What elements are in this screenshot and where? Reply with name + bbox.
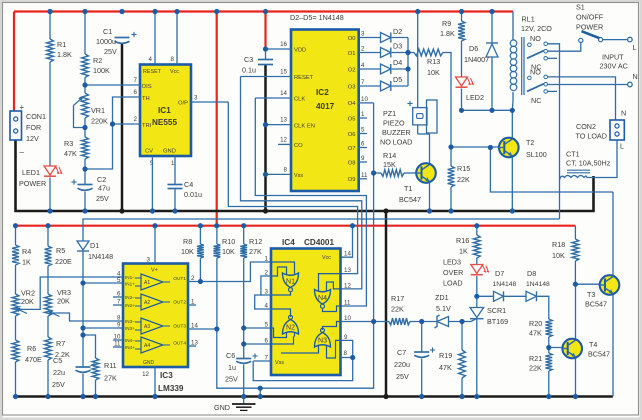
svg-text:R20: R20 [529, 319, 542, 328]
svg-text:OVER: OVER [443, 268, 463, 277]
svg-text:D3: D3 [393, 42, 402, 51]
resistor R3 47K [84, 118, 86, 137]
svg-text:BC547: BC547 [399, 195, 421, 204]
svg-text:LED2: LED2 [466, 93, 484, 102]
svg-text:GND: GND [214, 403, 230, 412]
wire +12V left riser from CON1 [13, 12, 15, 112]
junction [510, 108, 515, 113]
svg-text:LED1: LED1 [22, 168, 40, 177]
wire relay pole1 to switch S1 [548, 42, 581, 51]
svg-text:10: 10 [361, 96, 368, 103]
svg-text:OUT1: OUT1 [173, 276, 186, 282]
junction on +12V bottom rail [152, 223, 157, 228]
junction on upper ground bus [448, 208, 453, 213]
svg-text:14: 14 [344, 251, 351, 258]
connector CON1 FOR 12V [10, 111, 22, 140]
junction [371, 319, 376, 324]
wire relay pole2 to input N terminal [548, 84, 628, 86]
junction on +12V bottom rail [13, 223, 18, 228]
junction [110, 121, 115, 126]
svg-text:5: 5 [117, 277, 121, 284]
svg-text:VR1: VR1 [91, 106, 105, 115]
resistor R4 1K [15, 226, 17, 245]
svg-text:N1: N1 [286, 278, 295, 285]
wire IC1 DIS pin 7 row [85, 84, 140, 86]
junction [488, 145, 493, 150]
svg-text:OUT3: OUT3 [173, 324, 186, 330]
svg-text:NO: NO [530, 34, 541, 43]
svg-text:T1: T1 [404, 184, 412, 193]
svg-text:25V: 25V [104, 47, 117, 56]
diode D7 1N4148 [477, 295, 494, 297]
capacitor C5 22u 25V [82, 335, 84, 367]
IC U3 IC3 LM339 quad comparator [123, 264, 188, 368]
svg-text:4: 4 [361, 62, 365, 69]
svg-text:Vcc: Vcc [170, 69, 179, 75]
svg-text:R10: R10 [222, 237, 235, 246]
svg-text:RL1: RL1 [522, 15, 535, 24]
svg-text:4017: 4017 [316, 102, 335, 111]
svg-text:12V, 2CO: 12V, 2CO [521, 24, 552, 33]
wire IC2 RESET to IC4 pin 12 [241, 77, 362, 289]
svg-text:R19: R19 [439, 351, 452, 360]
wire IC2 CLK to IC4 pin 11 [255, 98, 366, 306]
wire IC1 O/P pin 3 row [191, 101, 228, 103]
junction on +12V bottom rail [474, 223, 479, 228]
resistor R9 1.8K [461, 12, 463, 22]
wire IC1 TRI pin 2 row [113, 123, 141, 125]
svg-text:C3: C3 [244, 55, 253, 64]
wire relay coil bottom node [462, 109, 513, 111]
svg-text:V+: V+ [151, 268, 158, 274]
junction [459, 319, 464, 324]
svg-text:R13: R13 [427, 57, 440, 66]
svg-text:PIEZO: PIEZO [383, 119, 405, 128]
svg-text:1000u: 1000u [96, 37, 116, 46]
junction on upper ground bus [119, 208, 124, 213]
junction on bottom ground bus [474, 394, 479, 399]
svg-text:R9: R9 [442, 19, 451, 28]
svg-text:IC1: IC1 [158, 106, 171, 115]
IC U4 IC4 CD4001 quad NOR [271, 249, 341, 376]
svg-text:ZD1: ZD1 [435, 293, 449, 302]
wire PZ1 to T1 collector [417, 125, 419, 134]
junction on +12V bottom rail [350, 223, 355, 228]
svg-text:8: 8 [344, 350, 348, 357]
wire T2 base to T3 collector trip line [490, 148, 613, 193]
svg-text:1N4148: 1N4148 [526, 281, 550, 288]
transistor Q1 T1 BC547 [416, 163, 436, 183]
NOR gate N3 [315, 333, 331, 348]
junction on bottom ground bus [419, 394, 424, 399]
svg-text:11: 11 [344, 300, 351, 307]
resistor R6 470E [15, 316, 17, 340]
svg-text:12: 12 [280, 136, 287, 143]
junction on +12V top rail [119, 9, 124, 14]
svg-text:220u: 220u [394, 360, 410, 369]
svg-text:IN3–: IN3– [125, 319, 135, 324]
svg-text:1K: 1K [459, 247, 468, 256]
resistor R7 2.2K [47, 316, 49, 337]
svg-text:IC3: IC3 [160, 371, 173, 380]
junction on bottom ground bus [459, 394, 464, 399]
wire D1 node to IC3 pin 9 [83, 327, 123, 329]
junction on +12V top rail [214, 9, 219, 14]
resistor R10 10K [216, 226, 218, 244]
svg-text:CLK: CLK [294, 97, 305, 103]
svg-text:R8: R8 [183, 237, 192, 246]
resistor R1 1.8K [49, 12, 51, 40]
svg-text:100K: 100K [93, 66, 110, 75]
svg-text:A1: A1 [144, 280, 150, 286]
junction on upper ground bus [172, 208, 177, 213]
svg-text:1: 1 [361, 111, 365, 118]
svg-text:12: 12 [142, 371, 149, 378]
junction on bottom ground bus [546, 394, 551, 399]
svg-text:C4: C4 [184, 180, 193, 189]
wire C6 to ground bus [243, 365, 245, 397]
wire relay NO1 to CT1 primary [548, 44, 560, 219]
junction on +12V bottom rail [241, 223, 246, 228]
svg-text:R21: R21 [529, 354, 542, 363]
svg-text:6: 6 [361, 141, 365, 148]
resistor R13 10K [408, 52, 414, 54]
wire relay NC2 stub [548, 90, 557, 92]
connector CON2 TO LOAD [610, 120, 624, 140]
svg-text:1.8K: 1.8K [57, 50, 72, 59]
resistor R2 100K [84, 12, 86, 55]
svg-text:0.01u: 0.01u [184, 190, 202, 199]
junction [263, 172, 268, 177]
wire T4 base row [549, 347, 566, 349]
junction on upper ground bus [150, 208, 155, 213]
IC U1 IC1 NE555 timer [140, 65, 191, 157]
wire +12V stub to IC2 VDD / C3 [264, 12, 266, 50]
svg-text:CON1: CON1 [26, 112, 46, 121]
svg-text:IC4: IC4 [282, 238, 295, 247]
svg-text:D8: D8 [527, 269, 536, 278]
junction on bottom ground bus [241, 394, 246, 399]
svg-text:0.1u: 0.1u [242, 66, 256, 75]
potentiometer VR2 20K [15, 265, 17, 294]
svg-text:8: 8 [284, 166, 288, 173]
svg-text:230V AC: 230V AC [600, 62, 628, 71]
svg-text:N4: N4 [318, 295, 327, 302]
potentiometer VR3 20K [47, 266, 49, 294]
svg-text:1N4148: 1N4148 [493, 281, 517, 288]
junction on upper ground bus [47, 208, 52, 213]
transistor Q4 T4 BC547 [562, 339, 582, 359]
wire ground drop from C1 [121, 43, 124, 212]
junction [371, 170, 376, 175]
svg-text:2: 2 [361, 46, 365, 53]
svg-text:13: 13 [280, 117, 287, 124]
wire relay NO2 to CON2 [548, 77, 616, 120]
svg-text:20K: 20K [57, 297, 70, 306]
wire D1 node to IC3 pin 5 [83, 282, 123, 284]
wire VR2 wiper to IC3 pin 4 [19, 277, 123, 309]
svg-text:A3: A3 [144, 324, 150, 330]
wire ground link between buses [385, 211, 388, 397]
svg-text:LED3: LED3 [443, 258, 461, 267]
junction on +12V top rail [263, 9, 268, 14]
junction on upper ground bus [427, 208, 432, 213]
junction on upper ground bus [383, 208, 388, 213]
svg-text:D6: D6 [469, 44, 478, 53]
svg-text:BC547: BC547 [585, 300, 607, 309]
junction [80, 325, 85, 330]
wire IC2 O4 pin 10 down to R14 and R17 row [359, 102, 374, 104]
wire T3 base row [575, 283, 603, 285]
capacitor C4 0.01u [174, 156, 176, 185]
svg-text:20K: 20K [21, 297, 34, 306]
transistor Q3 T3 BC547 [600, 275, 620, 295]
svg-text:O3: O3 [348, 84, 356, 90]
svg-text:IN1+: IN1+ [125, 282, 135, 287]
svg-text:IN1–: IN1– [125, 275, 135, 280]
junction [474, 294, 479, 299]
diode D6 1N4007 flyback [491, 12, 493, 44]
svg-text:1.8K: 1.8K [440, 29, 455, 38]
resistor R20 47K and resistor R21 22K [545, 319, 552, 337]
wire IC1 output to IC4 pin 13 [228, 102, 357, 274]
junction [258, 386, 263, 391]
svg-text:DIS: DIS [142, 84, 152, 90]
diodes D2 D3 D4 D5 1N4148 on IC2 outputs O0-O3 [359, 37, 381, 39]
svg-text:TO LOAD: TO LOAD [576, 132, 607, 141]
svg-text:O5: O5 [348, 116, 356, 122]
svg-text:1K: 1K [22, 258, 31, 267]
junction [241, 341, 246, 346]
junction on +12V top rail [459, 9, 464, 14]
svg-text:1u: 1u [228, 363, 236, 372]
diode D8 1N4148 [526, 291, 537, 301]
svg-text:CV: CV [145, 149, 153, 155]
junction [82, 166, 87, 171]
svg-text:8: 8 [171, 56, 175, 63]
resistor R16 1K [476, 226, 478, 235]
wire CT1 sense line to D1 [83, 219, 560, 241]
svg-text:SL100: SL100 [526, 150, 547, 159]
svg-text:IN4+: IN4+ [125, 345, 135, 350]
resistor R17 22K [341, 321, 390, 323]
svg-text:CT1: CT1 [566, 150, 580, 159]
svg-text:R2: R2 [93, 56, 102, 65]
terminal N input 230V AC [628, 82, 633, 87]
svg-text:O0: O0 [348, 36, 356, 42]
resistor R15 22K [450, 147, 452, 166]
svg-text:5: 5 [265, 322, 269, 329]
svg-text:IN2+: IN2+ [125, 303, 135, 308]
wire stub to ground bus [259, 388, 261, 396]
wire IC3 OUT2 stub [188, 304, 196, 306]
svg-text:D1: D1 [90, 241, 99, 250]
svg-text:4: 4 [149, 56, 153, 63]
junction [350, 355, 355, 360]
svg-text:D4: D4 [393, 58, 402, 67]
svg-text:CO: CO [294, 143, 303, 149]
svg-text:L: L [633, 43, 637, 52]
junction on upper ground bus [82, 208, 87, 213]
svg-text:CON2: CON2 [576, 122, 596, 131]
svg-text:22K: 22K [457, 175, 470, 184]
svg-text:CD4001: CD4001 [304, 238, 334, 247]
svg-text:+: + [20, 103, 25, 112]
wire IC4 internal gate connections [271, 262, 295, 271]
svg-text:12V: 12V [26, 134, 39, 143]
junction on bottom ground bus [383, 394, 388, 399]
svg-text:7: 7 [361, 79, 365, 86]
junction [448, 144, 453, 149]
capacitor C2 47u 25V [84, 159, 86, 185]
svg-text:RESET: RESET [143, 69, 162, 75]
svg-text:R3: R3 [64, 139, 73, 148]
svg-text:3: 3 [194, 95, 198, 102]
potentiometer VR1 220K [84, 78, 86, 94]
svg-text:3: 3 [361, 31, 365, 38]
svg-text:IC2: IC2 [316, 88, 329, 97]
svg-text:O6: O6 [348, 132, 356, 138]
junction [263, 46, 268, 51]
svg-text:ON/OFF: ON/OFF [576, 13, 604, 22]
junction [405, 66, 410, 71]
wire T1 emitter to ground [429, 182, 431, 211]
relay RL1 contacts [528, 43, 532, 47]
junction on +12V bottom rail [198, 223, 203, 228]
piezo buzzer PZ1 [417, 12, 419, 109]
diode D1 1N4148 [77, 241, 89, 250]
svg-text:O1: O1 [348, 51, 356, 57]
svg-text:GND: GND [143, 360, 155, 366]
svg-text:11: 11 [361, 172, 368, 179]
svg-text:6: 6 [265, 338, 269, 345]
resistor R11 27K [83, 335, 96, 358]
svg-text:O8: O8 [348, 160, 356, 166]
svg-text:VDD: VDD [294, 48, 306, 54]
svg-text:N3: N3 [318, 337, 327, 344]
junction [241, 325, 246, 330]
wire IC1 TH pin 6 row [113, 97, 141, 124]
junction [82, 125, 87, 130]
wire IC4 Vcc pin 14 to +12V rail [341, 226, 353, 258]
resistor R14 15K [374, 172, 381, 174]
svg-text:8: 8 [117, 315, 121, 322]
wire diode-OR bus [407, 38, 409, 87]
junction on +12V bottom rail [214, 223, 219, 228]
svg-text:C1: C1 [103, 27, 112, 36]
capacitor C7 220u 25V [421, 322, 423, 353]
svg-text:OUT2: OUT2 [173, 300, 186, 306]
svg-text:BUZZER: BUZZER [382, 128, 411, 137]
LED LED1 POWER [44, 166, 56, 175]
svg-text:OUT4: OUT4 [173, 341, 186, 347]
svg-text:25V: 25V [52, 380, 65, 389]
svg-text:5: 5 [361, 127, 365, 134]
junction on +12V top rail [174, 9, 179, 14]
current transformer CT1 CT 10A 50Hz [567, 169, 590, 171]
svg-text:220K: 220K [91, 117, 108, 126]
junction on upper ground bus [263, 208, 268, 213]
svg-text:T4: T4 [589, 340, 597, 349]
wire SCR gate row [449, 321, 472, 323]
svg-text:INPUT: INPUT [602, 53, 624, 62]
wire IC4 pin 10 loop to IC3 OUT3 [217, 322, 374, 389]
resistor R18 10K [574, 226, 576, 239]
svg-text:9: 9 [117, 322, 121, 329]
svg-text:470E: 470E [25, 355, 42, 364]
svg-text:9: 9 [361, 155, 365, 162]
wire IC3 OUT3 row [188, 328, 217, 330]
junction on bottom ground bus [80, 394, 85, 399]
svg-text:N: N [633, 72, 638, 81]
svg-text:R6: R6 [27, 344, 36, 353]
thyristor SCR1 BT169 [470, 308, 484, 318]
svg-text:22u: 22u [53, 368, 65, 377]
junction on +12V bottom rail [45, 223, 50, 228]
wire IC4 Vss pin 7 stub [253, 360, 271, 362]
resistor R5 220E [47, 226, 49, 246]
svg-text:D2–D5= 1N4148: D2–D5= 1N4148 [290, 13, 344, 22]
svg-text:NO LOAD: NO LOAD [380, 138, 412, 147]
IC U2 IC2 4017 decade counter [291, 30, 359, 192]
svg-text:1N4007: 1N4007 [464, 55, 489, 64]
svg-text:T2: T2 [526, 138, 534, 147]
svg-text:LOAD: LOAD [443, 279, 463, 288]
svg-text:Vcc: Vcc [322, 255, 331, 261]
junction on +12V top rail [82, 9, 87, 14]
wire T2 collector and emitter [511, 110, 513, 138]
svg-text:Vss: Vss [275, 360, 284, 366]
svg-text:10K: 10K [552, 251, 565, 260]
svg-text:D7: D7 [495, 269, 504, 278]
junction on bottom ground bus [258, 394, 263, 399]
svg-text:7: 7 [134, 77, 138, 84]
svg-text:D5: D5 [393, 75, 402, 84]
terminal L input 230V AC [628, 37, 633, 42]
wire T2 base row [451, 146, 502, 148]
wire S1 to input L terminal [603, 39, 628, 41]
junction on +12V top rail [47, 9, 52, 14]
svg-text:15K: 15K [383, 160, 396, 169]
switch S1 ON/OFF POWER [579, 38, 583, 42]
svg-text:R1: R1 [57, 40, 66, 49]
junction on bottom ground bus [573, 394, 578, 399]
svg-text:25V: 25V [396, 372, 409, 381]
svg-text:47K: 47K [529, 329, 542, 338]
resistor R8 10K [199, 226, 201, 244]
svg-text:TRI: TRI [142, 123, 152, 129]
svg-text:O4: O4 [348, 101, 357, 107]
svg-text:R16: R16 [456, 236, 469, 245]
svg-text:D2: D2 [393, 27, 402, 36]
svg-text:220E: 220E [55, 257, 72, 266]
svg-text:PZ1: PZ1 [383, 109, 396, 118]
svg-text:15: 15 [280, 69, 287, 76]
wire IC4 pin 2 to pin 3 loop [261, 276, 271, 295]
ground symbol GND [243, 397, 245, 404]
wire ground bus bottom [14, 395, 613, 398]
svg-text:C7: C7 [397, 348, 406, 357]
junction [80, 280, 85, 285]
svg-text:R4: R4 [22, 247, 31, 256]
wire +12V top rail [14, 10, 513, 12]
wire IC3 OUT4 stub [188, 345, 196, 347]
svg-text:A2: A2 [144, 300, 150, 306]
svg-text:47u: 47u [98, 184, 110, 193]
wire ground bus upper (CON1 minus to CT1) [16, 140, 594, 211]
capacitor C6 1u 25V [243, 344, 245, 359]
wire IC3 OUT1 to IC4 pin 1 [188, 262, 271, 282]
